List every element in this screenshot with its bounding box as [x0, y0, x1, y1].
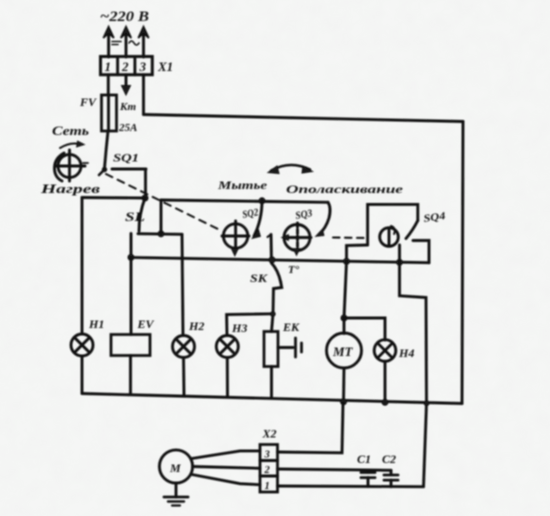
- node A post-SQ1: [142, 195, 148, 201]
- wire X1-3 down: [142, 75, 145, 115]
- wire EV to bus: [129, 356, 132, 395]
- heater EK probe: [278, 338, 302, 357]
- wire left branch to H1: [81, 198, 84, 335]
- wire N2 branch: [182, 234, 183, 335]
- node N4 bus: [382, 399, 388, 405]
- wire lower bus B: [131, 257, 429, 262]
- connector X1: [101, 57, 153, 75]
- mains arrow 1: [103, 27, 114, 58]
- lamp N3: [216, 336, 238, 358]
- wire N4 to bus: [384, 361, 387, 402]
- ground: [164, 483, 188, 506]
- wire X2-1 bottom: [278, 485, 424, 489]
- wire SK to N3: [227, 314, 273, 336]
- node SK bus: [269, 257, 275, 263]
- wire N3 to bus: [226, 358, 229, 397]
- wire MT lead: [343, 318, 346, 334]
- wire motor to X2 mid: [193, 467, 260, 469]
- cam SQ4: [380, 226, 399, 246]
- wire N2 to bus: [182, 358, 185, 396]
- node SQ2 feed: [259, 198, 265, 204]
- wire SK to EK: [272, 314, 274, 332]
- wire motor to X2 top: [192, 451, 260, 459]
- capacitor C2: [384, 470, 398, 486]
- switch SQ2 lead arrowhead: [252, 230, 261, 239]
- wire node A left: [82, 196, 145, 199]
- wire MT to bus: [342, 368, 345, 402]
- cam SQ2: [222, 221, 249, 249]
- wire rail corner to EV branch: [130, 234, 133, 258]
- node neutral bus crossing: [424, 401, 429, 406]
- dashed link SQ3 to SQ4: [333, 236, 366, 239]
- node MT feed: [341, 315, 347, 321]
- node SK EK joint: [270, 312, 275, 317]
- switch SQ2 lead: [254, 201, 262, 236]
- wire right vertical: [462, 122, 463, 404]
- mains arrow 3: [138, 27, 149, 58]
- wire motor to X2 bottom: [192, 475, 260, 485]
- fuse FV: [102, 95, 117, 131]
- relay coil EV: [111, 335, 150, 356]
- mains arrow 2: [121, 27, 132, 58]
- wire EV branch down: [130, 257, 133, 334]
- wire X1-1 to fuse: [107, 75, 110, 95]
- wire SL rail: [138, 232, 182, 236]
- node MT bus: [341, 399, 347, 405]
- node SQ4 feed: [344, 258, 350, 264]
- wire SQ4 left step: [347, 245, 368, 261]
- switch SQ3 arrow down: [293, 249, 300, 256]
- capacitor C1: [361, 470, 375, 486]
- switch SQ1: [99, 167, 146, 198]
- motor M: [159, 450, 192, 483]
- switch SQ3 lead: [319, 202, 330, 234]
- wire X2-2 to capacitors: [278, 469, 392, 470]
- wire MT branch down: [344, 261, 347, 318]
- lamp H1: [71, 334, 93, 356]
- heater EK: [264, 332, 278, 367]
- wire program bus right: [161, 200, 328, 202]
- wire top horizontal to right side: [144, 115, 464, 122]
- wire fuse to SQ1: [105, 131, 109, 168]
- switch SQ3 lead arrowhead: [316, 229, 325, 237]
- node EV top: [128, 254, 134, 260]
- wire H1 to bus: [81, 356, 84, 394]
- dashed link SQ1 to SQ2: [106, 174, 222, 231]
- wire SQ4 cam down: [398, 245, 401, 262]
- node neutral tap: [397, 259, 403, 265]
- lamp N4: [374, 340, 396, 362]
- switch SQ2 arrow to bus: [231, 249, 238, 257]
- node SL rail joint: [158, 231, 164, 237]
- thermal switch SK: [268, 235, 282, 314]
- wire SQ4 top frame: [368, 204, 418, 245]
- arrow stub from X1-2: [122, 75, 131, 95]
- wire neutral Z path: [400, 262, 427, 486]
- lamp N2: [173, 336, 195, 358]
- switch SQ4 fixed contact: [413, 241, 429, 263]
- cam SQ3: [282, 223, 312, 251]
- wire MT feed to N4: [344, 318, 385, 340]
- wire bottom bus: [82, 394, 462, 404]
- connector X2: [260, 445, 278, 493]
- wire rail up to program bus: [160, 200, 163, 234]
- knob rotary selector: [54, 141, 88, 181]
- mode double arrow: [268, 165, 313, 174]
- switch SQ4 blade: [406, 221, 418, 239]
- wire X2-3 to bus riser: [278, 403, 344, 453]
- timer motor MT: [327, 333, 362, 368]
- switch SL blade: [139, 198, 145, 231]
- wire EK to bus: [270, 367, 273, 398]
- phase tick marks: [112, 41, 139, 45]
